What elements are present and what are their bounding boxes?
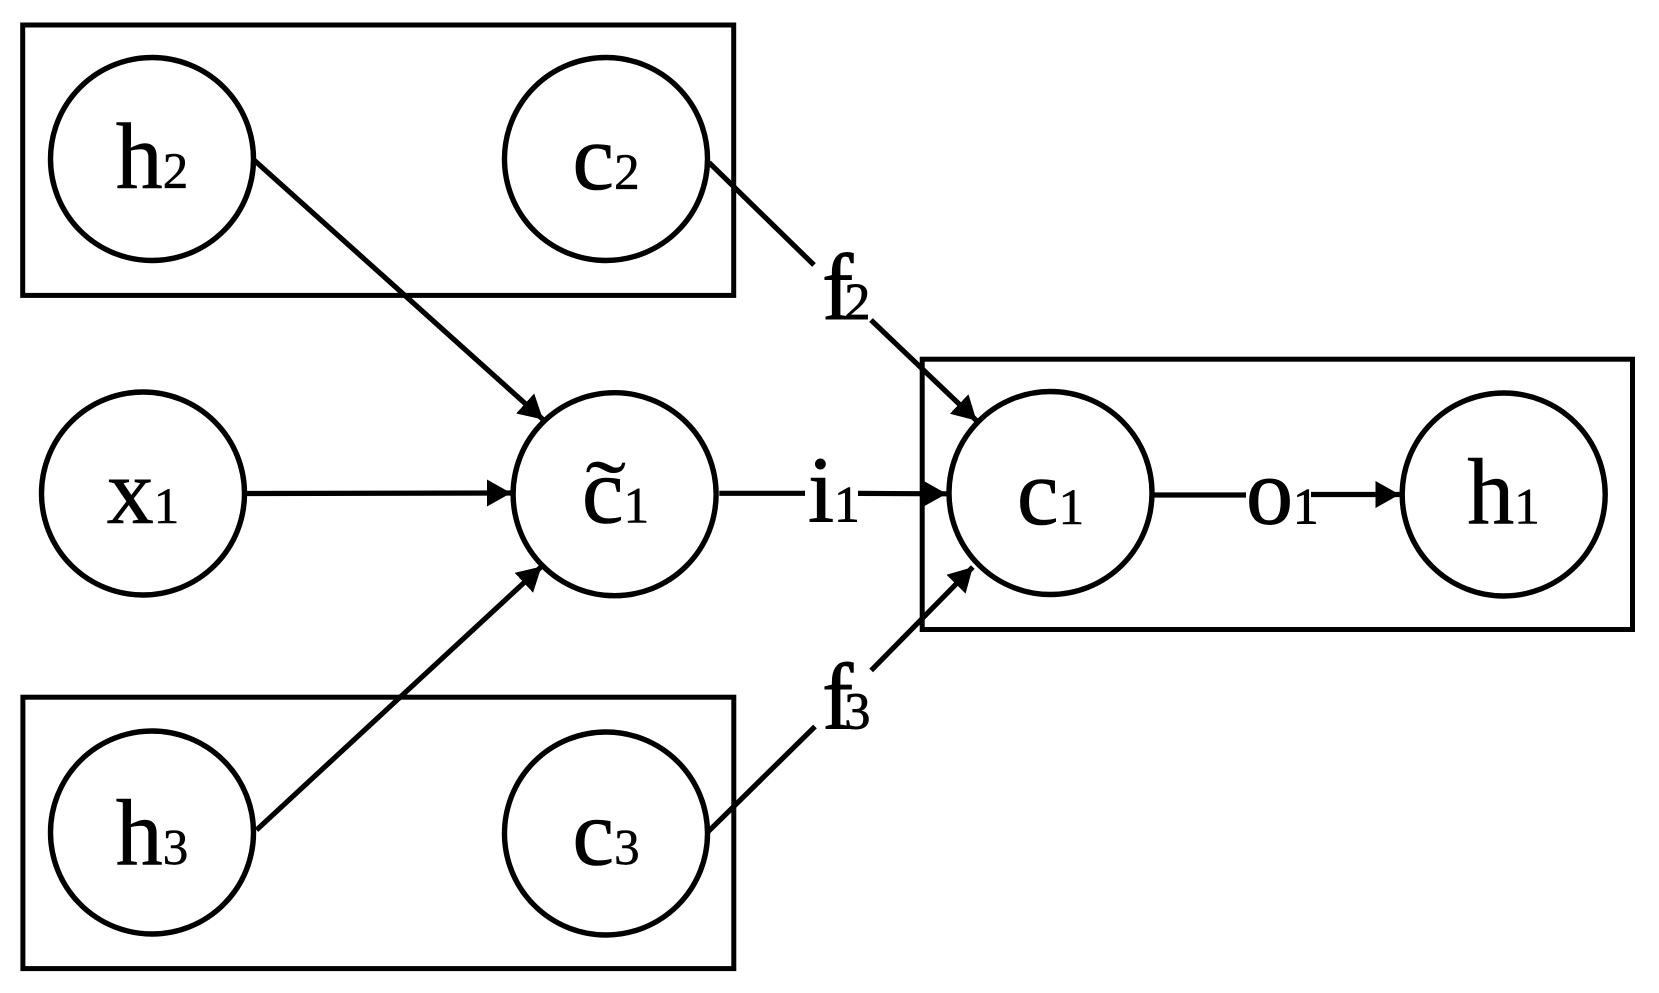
svg-text:c1: c1 bbox=[1017, 441, 1084, 545]
box bottom-left (h3,c3 group) bbox=[23, 697, 734, 968]
node h3 bbox=[51, 731, 254, 934]
box top-left (h2,c2 group) bbox=[23, 25, 734, 295]
svg-text:c3: c3 bbox=[572, 782, 639, 886]
node x1 bbox=[42, 392, 245, 595]
arrow c2 to c1, segment after label f2 bbox=[871, 320, 977, 421]
node h2 bbox=[51, 58, 254, 261]
svg-text:c2: c2 bbox=[572, 106, 639, 210]
arrow h3 to c~1 bbox=[257, 567, 542, 831]
node c1 bbox=[949, 392, 1152, 595]
arrow c1 to h1, segment before label o1 bbox=[1154, 492, 1246, 497]
svg-text:o1: o1 bbox=[1246, 441, 1319, 545]
arrow c1 to h1, segment after label o1 bbox=[1311, 492, 1400, 497]
arrow c3 to c1, segment before label f3 bbox=[708, 727, 815, 832]
svg-text:h1: h1 bbox=[1467, 441, 1540, 545]
svg-text:x1: x1 bbox=[107, 440, 180, 544]
arrow c~1 to c1, segment after label i1 bbox=[858, 491, 947, 497]
box right (c1,h1 group) bbox=[922, 359, 1632, 629]
svg-text:h3: h3 bbox=[116, 781, 189, 885]
arrow h2 to c~1 bbox=[254, 160, 543, 420]
node c3 bbox=[505, 732, 708, 935]
node h1 bbox=[1402, 393, 1605, 596]
node c2 bbox=[505, 58, 708, 261]
svg-text:˜: ˜ bbox=[585, 443, 626, 541]
arrow c~1 to c1, segment before label i1 bbox=[719, 491, 805, 496]
arrow c3 to c1, segment after label f3 bbox=[871, 567, 973, 670]
arrow x1 to c~1 bbox=[247, 490, 511, 496]
arrow c2 to c1, segment before label f2 bbox=[709, 163, 814, 266]
svg-text:i1: i1 bbox=[808, 439, 860, 543]
svg-text:f3: f3 bbox=[822, 646, 870, 750]
node c~1 (candidate cell) bbox=[513, 393, 716, 596]
svg-text:h2: h2 bbox=[116, 105, 189, 209]
svg-text:f2: f2 bbox=[822, 236, 870, 340]
